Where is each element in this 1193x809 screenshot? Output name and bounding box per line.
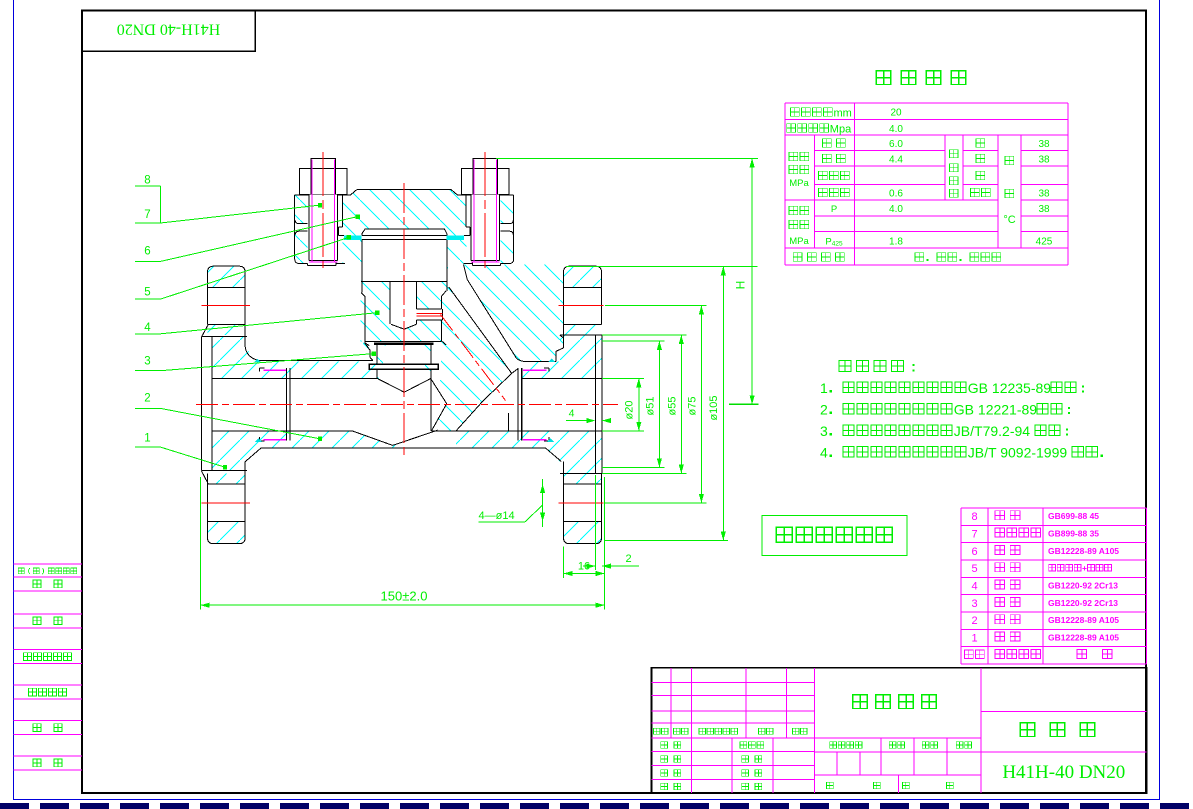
svg-text:GB12228-89 A105: GB12228-89 A105 xyxy=(1048,615,1119,625)
part 2 body barrel left / part 1 flange (法兰) hatched fill xyxy=(212,337,245,471)
white: stud holes in flanges xyxy=(308,196,343,266)
svg-text:3: 3 xyxy=(144,356,150,368)
outer blue border bottom xyxy=(14,799,1160,801)
svg-text:GB12228-89 A105: GB12228-89 A105 xyxy=(1048,546,1119,556)
svg-text:+: + xyxy=(1082,563,1087,573)
svg-text:5: 5 xyxy=(971,563,977,575)
white: seat exit cone kite xyxy=(431,379,446,431)
svg-text:38: 38 xyxy=(1038,204,1050,215)
svg-text:6: 6 xyxy=(144,246,150,258)
left flange weld insert verticals xyxy=(286,368,288,441)
svg-text:GB899-88 35: GB899-88 35 xyxy=(1048,529,1099,539)
svg-text:2: 2 xyxy=(971,615,977,627)
svg-text:1: 1 xyxy=(144,432,150,444)
title block xyxy=(652,668,1147,793)
svg-text:GB699-88 45: GB699-88 45 xyxy=(1048,511,1099,521)
svg-text:GB 12235-89: GB 12235-89 xyxy=(968,380,1051,396)
bottom dashed navy strip xyxy=(0,803,1193,809)
extension lines xyxy=(496,157,758,159)
16 dim xyxy=(563,547,565,579)
svg-text:1: 1 xyxy=(971,633,977,645)
part 3 seat (阀座) hatched fill xyxy=(377,345,431,364)
4 dim (seat face) xyxy=(566,420,589,422)
red vertical centerline xyxy=(403,183,405,457)
svg-text:ø51: ø51 xyxy=(645,397,657,416)
body flange bottom edges and stud hole bottoms xyxy=(336,263,345,265)
white: passage outlet cone xyxy=(456,367,521,431)
red stud centerlines xyxy=(322,152,324,268)
body top surface left xyxy=(245,346,258,360)
leader lines with dots xyxy=(161,205,321,223)
svg-text:P: P xyxy=(831,204,837,215)
white: passage channel xyxy=(449,279,517,373)
bore lines xyxy=(212,377,377,379)
left weld lip hooks xyxy=(258,368,260,372)
white: disc stem slot xyxy=(390,281,417,329)
svg-text:150±2.0: 150±2.0 xyxy=(381,588,428,603)
boss outer wall left xyxy=(361,240,363,293)
svg-text:GB 12221-89: GB 12221-89 xyxy=(954,402,1037,418)
white: left bore xyxy=(202,378,378,430)
cyan weld marks xyxy=(254,359,261,363)
red diagonal passage centerline xyxy=(441,315,506,401)
passage outer wall xyxy=(464,265,468,280)
white: bonnet center bore xyxy=(362,240,447,282)
body boss / right wedge hatched fill xyxy=(361,241,512,431)
cavity wall left (chamfer into seat) xyxy=(365,343,369,346)
svg-text:GB1220-92 2Cr13: GB1220-92 2Cr13 xyxy=(1048,581,1118,591)
svg-text:38: 38 xyxy=(1038,189,1050,200)
svg-text:ø75: ø75 xyxy=(687,397,699,416)
outer blue border left xyxy=(13,0,15,800)
svg-text:H: H xyxy=(734,281,748,290)
svg-text:2: 2 xyxy=(625,553,631,565)
2 dim xyxy=(594,475,596,570)
svg-text:GB1220-92 2Cr13: GB1220-92 2Cr13 xyxy=(1048,598,1118,608)
right flange: raised face xyxy=(594,335,596,474)
left margin blocks xyxy=(14,564,83,770)
white: disc side slot xyxy=(417,309,443,320)
magenta weld lip lines xyxy=(264,369,286,371)
red bolt hole centerlines xyxy=(202,304,251,306)
H dim xyxy=(751,158,753,404)
part 6 bonnet (阀盖) hatched fill xyxy=(295,190,514,229)
svg-text:4.0: 4.0 xyxy=(889,124,903,135)
svg-text:4: 4 xyxy=(820,445,828,461)
svg-text:1: 1 xyxy=(820,380,828,396)
svg-text:1.8: 1.8 xyxy=(889,237,903,248)
leader elbow 8-7 xyxy=(160,186,162,223)
svg-text:8: 8 xyxy=(971,511,977,523)
body bottom xyxy=(261,447,546,449)
svg-text:8: 8 xyxy=(144,175,150,187)
dia 75 dim xyxy=(700,305,702,503)
dia 55 dim xyxy=(680,335,682,474)
svg-text:MPa: MPa xyxy=(789,178,809,189)
part 7 stud + part 8 nut (双头螺柱/螺母) assembly cx=485.2 xyxy=(473,158,498,168)
svg-text:mm: mm xyxy=(834,108,852,120)
study box 仅供学习交流 xyxy=(762,516,907,556)
left flange chamfers to blocks xyxy=(201,471,208,484)
svg-text:GB12228-89 A105: GB12228-89 A105 xyxy=(1048,633,1119,643)
white: right bore xyxy=(522,378,602,430)
svg-text:ø20: ø20 xyxy=(624,401,636,420)
svg-text:JB/T 9092-1999: JB/T 9092-1999 xyxy=(968,445,1068,461)
svg-text:38: 38 xyxy=(1038,155,1050,166)
technical requirements text xyxy=(820,361,1103,461)
svg-text:38: 38 xyxy=(1038,139,1050,150)
svg-text:20: 20 xyxy=(890,108,902,119)
svg-text:5: 5 xyxy=(144,287,150,299)
right outer body (passage side) hatched fill xyxy=(464,265,564,362)
svg-text:0.6: 0.6 xyxy=(889,189,903,200)
white: flange interface gaps xyxy=(295,224,309,231)
dia 20 dim xyxy=(638,378,640,431)
svg-text:°C: °C xyxy=(1003,214,1015,226)
left flange: raised face xyxy=(200,337,202,471)
right body barrel hatched fill xyxy=(522,362,602,379)
seat sealing surface (thick) xyxy=(374,342,434,345)
svg-text:6: 6 xyxy=(971,546,977,558)
passage outlet cone edges xyxy=(483,373,511,400)
svg-text:ø105: ø105 xyxy=(708,395,720,420)
svg-text:4.4: 4.4 xyxy=(889,155,903,166)
flange interface edge lines xyxy=(295,221,307,224)
dia 51 dim xyxy=(658,341,660,467)
VALVE DRAWING xyxy=(135,152,759,610)
bottom V xyxy=(352,431,393,446)
svg-text:2: 2 xyxy=(820,402,828,418)
bonnet outline xyxy=(357,189,451,191)
right seat insert (double vertical) xyxy=(517,368,519,441)
svg-text:7: 7 xyxy=(971,529,977,541)
right weld lip hooks xyxy=(548,368,550,372)
svg-text:7: 7 xyxy=(144,209,150,221)
part 4 disc (阀瓣) hatched fill xyxy=(361,281,447,341)
svg-text:JB/T79.2-94: JB/T79.2-94 xyxy=(954,423,1030,439)
flange corner blocks outlines xyxy=(208,266,246,324)
svg-text:4: 4 xyxy=(569,408,575,420)
svg-text:MPa: MPa xyxy=(789,236,809,247)
svg-text:4.0: 4.0 xyxy=(889,204,903,215)
svg-text:4—ø14: 4—ø14 xyxy=(479,510,515,522)
body to flange connection verticals xyxy=(244,324,246,346)
cavity wall right / slot xyxy=(446,240,448,291)
white: seat center hole xyxy=(383,346,425,379)
disc outline xyxy=(361,280,446,282)
parts list table xyxy=(961,508,1147,664)
red pipe axis centerline xyxy=(196,403,618,405)
seat ring xyxy=(376,345,378,364)
4-dia14 dim xyxy=(542,479,544,527)
part 7 stud + part 8 nut (双头螺柱/螺母) assembly cx=323.2 xyxy=(311,158,336,168)
body top right fillet xyxy=(560,335,564,348)
svg-text:4: 4 xyxy=(144,322,151,334)
svg-text:3: 3 xyxy=(971,598,977,610)
svg-text:ø55: ø55 xyxy=(667,397,679,416)
outer blue border right xyxy=(1159,0,1161,800)
svg-text:2: 2 xyxy=(144,393,150,405)
svg-text:H41H-40 DN20: H41H-40 DN20 xyxy=(1002,762,1125,783)
performance spec table 性能规范 xyxy=(785,71,1068,265)
svg-text:6.0: 6.0 xyxy=(889,139,903,150)
svg-text:425: 425 xyxy=(1036,237,1053,248)
part 2 body bonnet-flange (阀体) hatched fill xyxy=(295,228,514,264)
svg-text:3: 3 xyxy=(820,423,828,439)
svg-text:H41H-40 DN20: H41H-40 DN20 xyxy=(117,21,221,38)
white: bottom V pocket xyxy=(352,431,438,446)
flange corner blocks hatched fills xyxy=(208,266,246,287)
bonnet tongue (trapezoid) xyxy=(362,229,447,240)
150 dim xyxy=(200,477,202,610)
top-left title box xyxy=(82,11,255,52)
svg-text:Mpa: Mpa xyxy=(830,124,852,136)
dia 105 dim xyxy=(722,266,724,540)
svg-text:4: 4 xyxy=(971,581,977,593)
red slot lines xyxy=(417,312,443,314)
part 5 gasket (垫片) cyan bars xyxy=(344,235,361,240)
passage inner wall xyxy=(449,287,512,374)
